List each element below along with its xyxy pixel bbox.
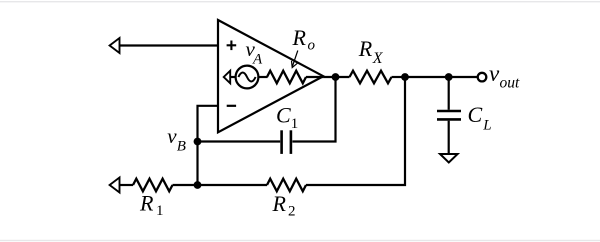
svg-text:R: R <box>272 191 287 216</box>
capacitor C1 right plate <box>290 130 293 154</box>
wire: source vA to resistor Ro <box>258 76 267 78</box>
wire: Ro to op-amp output apex <box>306 76 323 78</box>
wire: CL tap to output terminal <box>449 76 478 78</box>
wire: vB down to bottom rail <box>196 142 198 186</box>
internal reference arrow <box>224 71 231 84</box>
wire: reference arrow to source vA <box>230 76 236 78</box>
svg-text:X: X <box>372 50 384 67</box>
resistor Ro <box>267 71 306 84</box>
input terminal arrow (+ input) <box>110 38 120 53</box>
wire: op-amp output to resistor RX <box>323 76 349 78</box>
svg-text:R: R <box>139 191 154 216</box>
svg-text:v: v <box>489 61 500 86</box>
wire: non-inverting input lead <box>120 44 219 46</box>
op-amp - pin mark <box>227 105 236 107</box>
svg-text:out: out <box>500 75 521 92</box>
wire: CL to ground <box>448 121 450 155</box>
wire: node X to CL tap <box>405 76 449 78</box>
ground <box>440 154 458 163</box>
wire: R1 to bottom rail junction <box>173 184 198 186</box>
junction: CL tap <box>445 73 453 81</box>
svg-text:C: C <box>276 103 291 128</box>
feedback terminal arrow (left of R1) <box>110 178 120 193</box>
svg-text:C: C <box>468 102 483 127</box>
capacitor C1 left plate <box>280 130 283 154</box>
wire: output node down to C1 right plate <box>292 77 335 142</box>
pointer arrow from Ro label to resistor <box>292 51 298 68</box>
svg-text:2: 2 <box>288 204 296 220</box>
source vA (AC source circle) <box>236 66 259 89</box>
resistor RX <box>350 71 392 84</box>
wire: arrow to resistor R1 <box>120 184 133 186</box>
op-amp + pin mark <box>227 41 237 51</box>
output terminal vout (open circle) <box>478 73 487 82</box>
op-amp triangle <box>218 20 323 132</box>
svg-text:v: v <box>167 124 177 148</box>
wire: junction to resistor R2 <box>198 184 268 186</box>
junction: node X <box>401 73 409 81</box>
wire: CL tap down to capacitor CL <box>448 77 450 110</box>
resistor R1 <box>133 179 173 192</box>
capacitor CL bottom plate <box>437 118 461 121</box>
svg-text:A: A <box>252 51 263 67</box>
svg-text:1: 1 <box>156 203 164 219</box>
svg-text:R: R <box>292 25 307 50</box>
junction: node vB <box>194 138 202 146</box>
junction: op-amp output node <box>332 73 340 81</box>
wire: inverting input lead <box>198 106 219 142</box>
svg-text:B: B <box>177 139 186 155</box>
capacitor CL top plate <box>437 110 461 113</box>
svg-text:1: 1 <box>291 116 299 132</box>
resistor R2 <box>267 179 306 192</box>
svg-text:R: R <box>358 36 373 61</box>
wire: vB to capacitor C1 <box>198 140 281 142</box>
wire: RX to node X <box>392 76 406 78</box>
svg-text:L: L <box>482 118 491 134</box>
junction: bottom rail at vB column <box>194 181 202 189</box>
svg-text:o: o <box>308 38 316 54</box>
wire: node X down to bottom feedback rail <box>306 77 405 185</box>
